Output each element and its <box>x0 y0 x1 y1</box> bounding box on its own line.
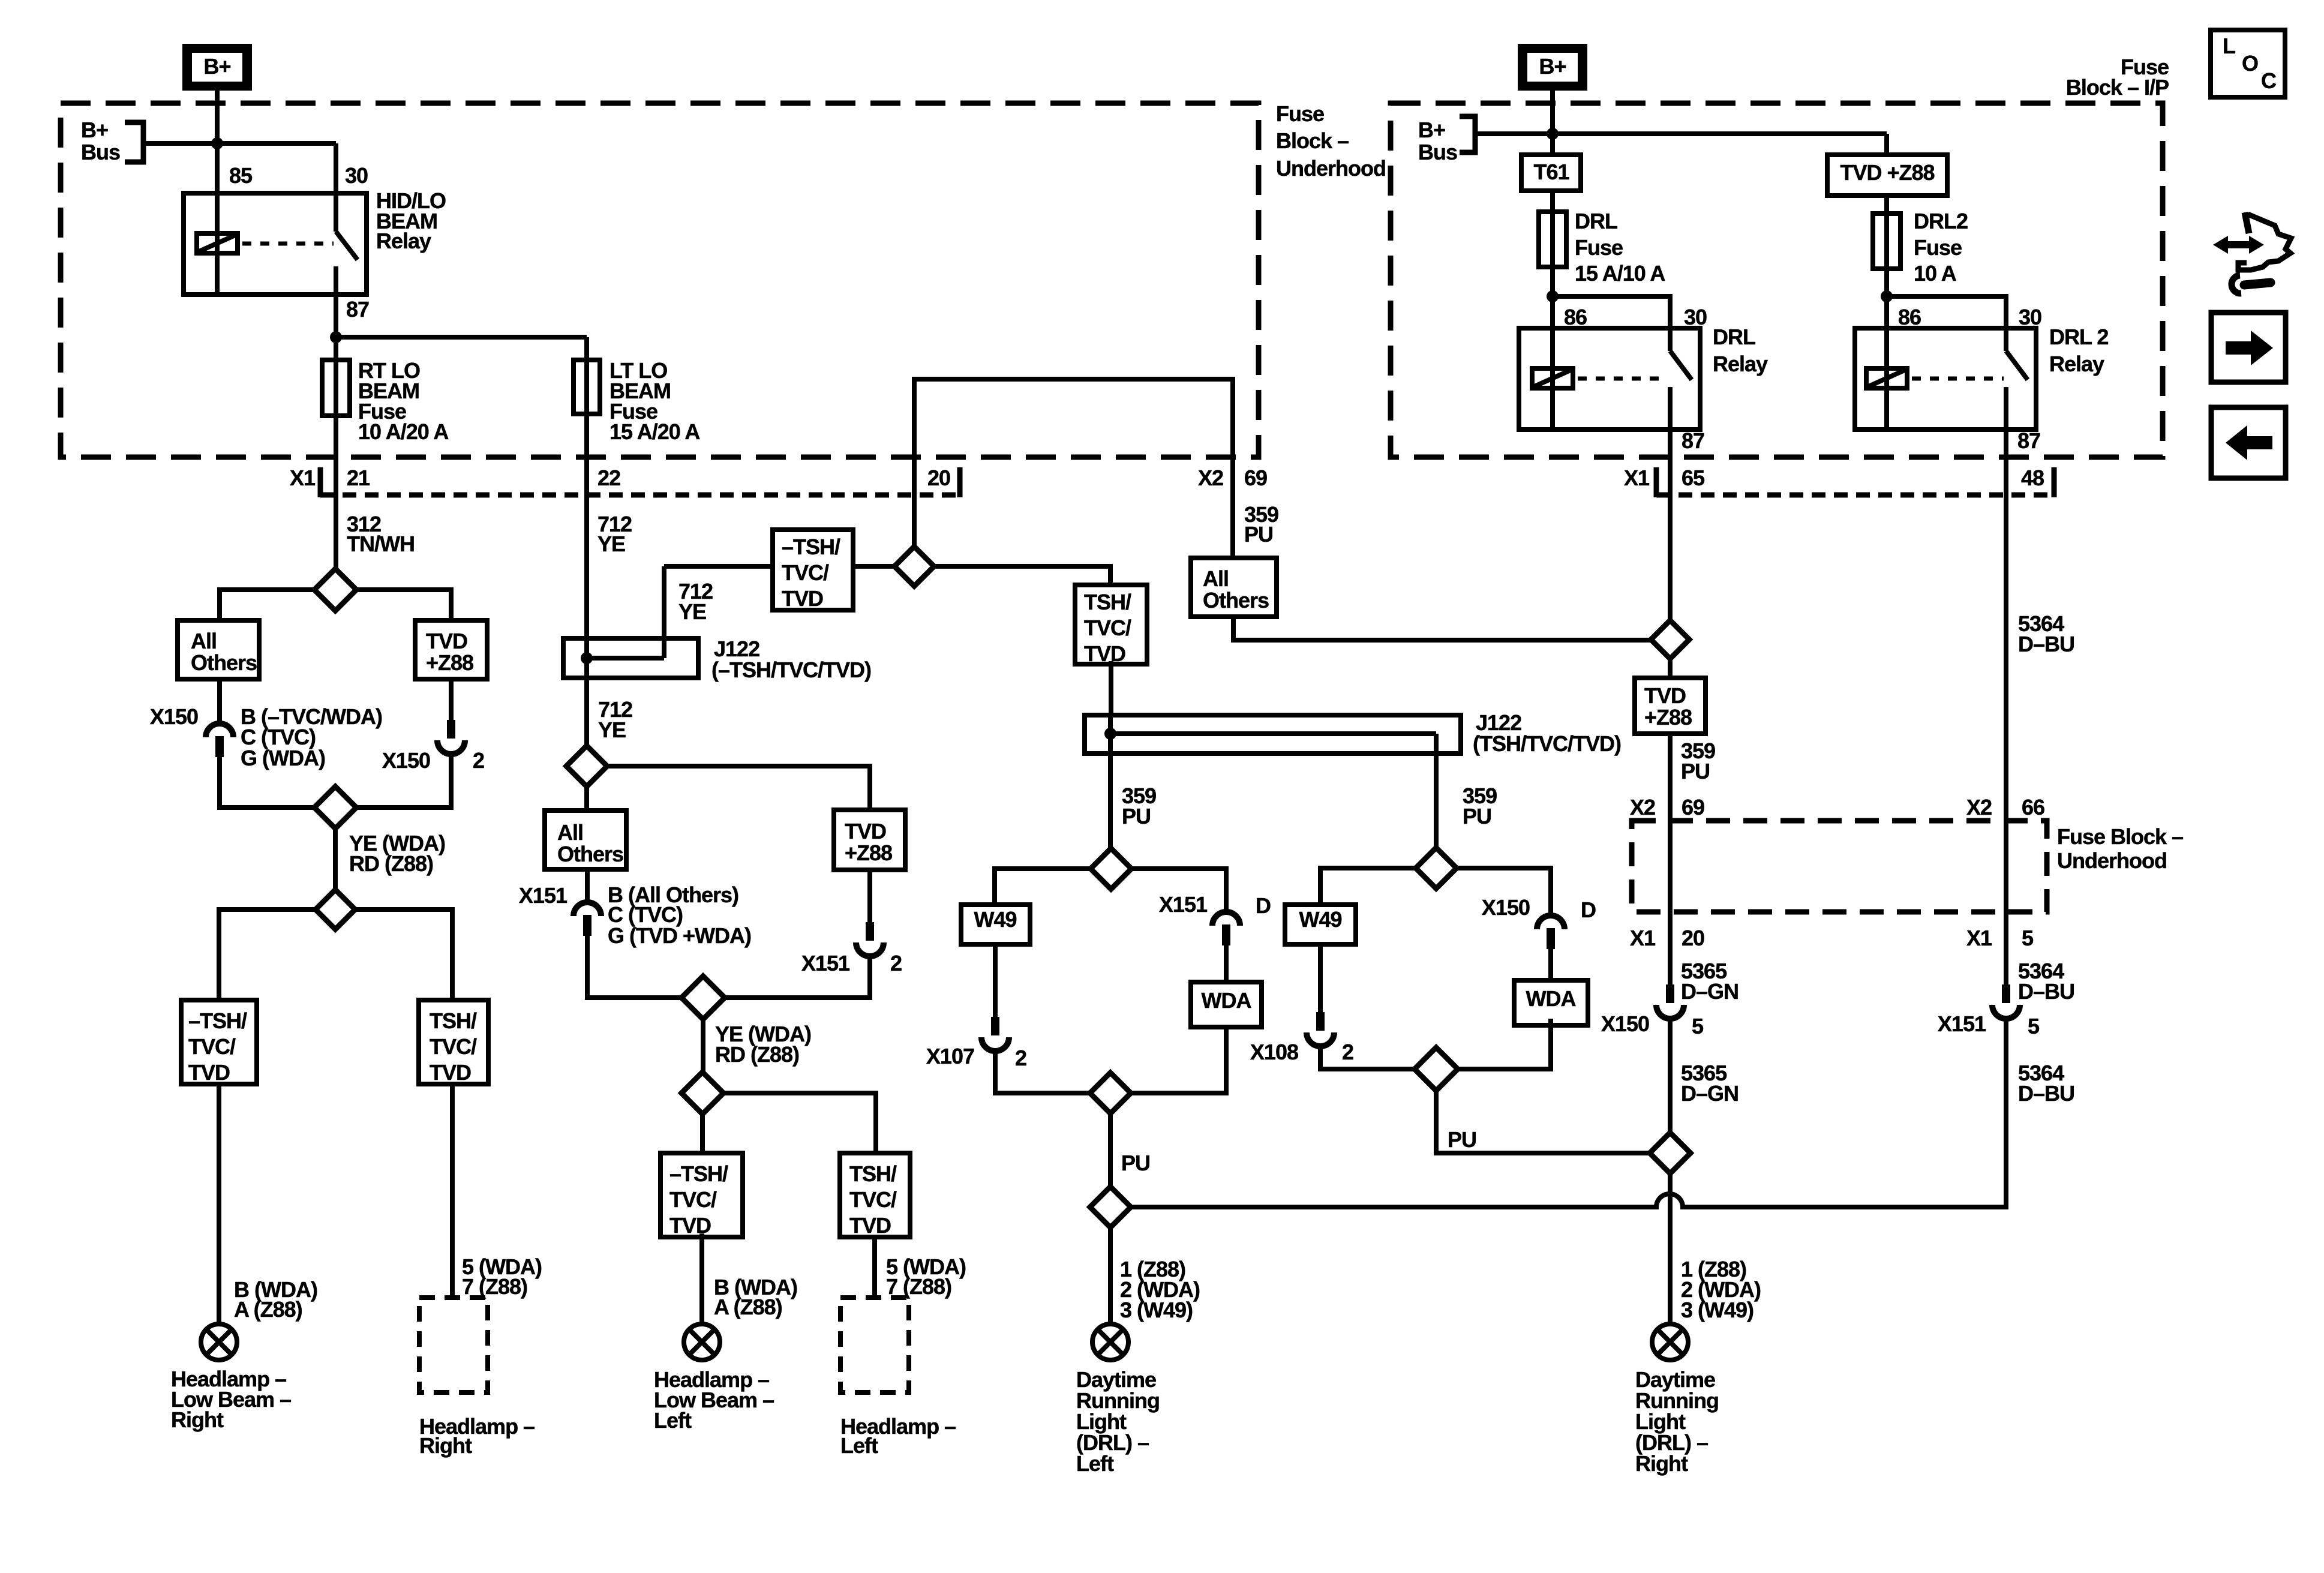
svg-text:86: 86 <box>1898 305 1921 329</box>
svg-text:DRL2: DRL2 <box>1914 209 1968 233</box>
svg-text:D–GN: D–GN <box>1681 979 1739 1004</box>
svg-text:Underhood: Underhood <box>1276 156 1386 181</box>
svg-text:X151: X151 <box>801 951 850 975</box>
svg-text:5: 5 <box>1692 1014 1704 1038</box>
svg-text:Fuse: Fuse <box>1575 235 1623 260</box>
svg-text:DRL: DRL <box>1575 209 1617 233</box>
svg-text:X151: X151 <box>1938 1011 1986 1036</box>
svg-text:All: All <box>1203 566 1229 591</box>
svg-text:TVD: TVD <box>426 629 467 653</box>
svg-text:48: 48 <box>2021 466 2044 490</box>
svg-text:3 (W49): 3 (W49) <box>1681 1298 1753 1322</box>
svg-text:X150: X150 <box>150 704 198 729</box>
svg-text:2: 2 <box>890 951 902 975</box>
svg-text:YE: YE <box>597 532 625 556</box>
svg-text:TVD: TVD <box>782 586 823 611</box>
svg-text:22: 22 <box>597 466 620 490</box>
svg-text:D–GN: D–GN <box>1681 1081 1739 1106</box>
svg-text:X1: X1 <box>1966 926 1992 950</box>
svg-text:TVD: TVD <box>1644 683 1686 708</box>
svg-text:20: 20 <box>927 466 950 490</box>
svg-text:66: 66 <box>2022 795 2044 819</box>
svg-text:W49: W49 <box>974 907 1016 932</box>
svg-text:TVD: TVD <box>430 1060 471 1085</box>
svg-text:Right: Right <box>171 1407 224 1432</box>
svg-text:TVD: TVD <box>849 1213 891 1238</box>
svg-text:Left: Left <box>654 1408 692 1433</box>
svg-text:69: 69 <box>1682 795 1704 819</box>
svg-text:+Z88: +Z88 <box>845 840 892 865</box>
svg-text:T61: T61 <box>1533 160 1569 184</box>
svg-text:7 (Z88): 7 (Z88) <box>462 1274 527 1299</box>
svg-text:PU: PU <box>1463 804 1491 828</box>
svg-text:X2: X2 <box>1630 795 1655 819</box>
svg-text:Bus: Bus <box>1418 140 1457 164</box>
svg-text:A (Z88): A (Z88) <box>234 1297 302 1322</box>
svg-text:RD (Z88): RD (Z88) <box>715 1042 799 1067</box>
svg-text:2: 2 <box>473 748 484 773</box>
svg-text:W49: W49 <box>1299 907 1341 932</box>
svg-text:D: D <box>1581 897 1596 922</box>
svg-text:Right: Right <box>419 1433 472 1458</box>
svg-text:TVC/: TVC/ <box>669 1187 717 1212</box>
svg-text:X1: X1 <box>1624 466 1650 490</box>
svg-text:PU: PU <box>1121 1151 1150 1175</box>
svg-text:D–BU: D–BU <box>2018 1081 2074 1106</box>
svg-text:TSH/: TSH/ <box>1084 590 1131 614</box>
svg-text:69: 69 <box>1244 466 1267 490</box>
svg-text:X1: X1 <box>290 466 316 490</box>
svg-text:(TSH/TVC/TVD): (TSH/TVC/TVD) <box>1473 731 1621 756</box>
svg-text:PU: PU <box>1122 804 1151 828</box>
svg-text:Relay: Relay <box>1713 352 1768 376</box>
svg-text:Fuse Block –: Fuse Block – <box>2057 824 2183 849</box>
svg-text:D–BU: D–BU <box>2018 632 2074 656</box>
svg-text:TVD: TVD <box>669 1213 711 1238</box>
svg-text:5: 5 <box>2022 926 2034 950</box>
svg-text:A (Z88): A (Z88) <box>714 1295 782 1319</box>
svg-text:Left: Left <box>1076 1451 1114 1476</box>
svg-text:–TSH/: –TSH/ <box>782 535 840 559</box>
svg-text:65: 65 <box>1682 466 1705 490</box>
svg-text:TVD +Z88: TVD +Z88 <box>1840 160 1934 185</box>
svg-text:WDA: WDA <box>1526 986 1577 1011</box>
svg-text:TSH/: TSH/ <box>849 1161 897 1186</box>
svg-text:PU: PU <box>1681 759 1710 784</box>
svg-text:Underhood: Underhood <box>2057 848 2167 873</box>
svg-text:Others: Others <box>191 650 257 675</box>
svg-text:X150: X150 <box>1601 1011 1649 1036</box>
svg-text:Fuse: Fuse <box>1914 235 1962 260</box>
svg-text:(–TSH/TVC/TVD): (–TSH/TVC/TVD) <box>711 658 871 682</box>
svg-text:Others: Others <box>1203 588 1269 613</box>
svg-text:TVD: TVD <box>188 1060 230 1085</box>
svg-text:+Z88: +Z88 <box>1644 705 1692 730</box>
svg-text:5: 5 <box>2028 1014 2040 1038</box>
svg-text:Right: Right <box>1635 1451 1688 1476</box>
svg-text:86: 86 <box>1564 305 1587 329</box>
svg-text:X108: X108 <box>1250 1040 1298 1064</box>
svg-text:Block –: Block – <box>1276 128 1349 153</box>
svg-text:2: 2 <box>1342 1040 1353 1064</box>
svg-text:7 (Z88): 7 (Z88) <box>886 1274 951 1299</box>
svg-text:15 A/20 A: 15 A/20 A <box>609 419 700 444</box>
svg-text:D: D <box>1256 893 1271 918</box>
svg-text:YE: YE <box>598 718 626 742</box>
svg-text:20: 20 <box>1682 926 1704 950</box>
svg-text:3 (W49): 3 (W49) <box>1120 1298 1193 1322</box>
svg-text:X150: X150 <box>382 748 430 773</box>
svg-text:30: 30 <box>2019 305 2041 329</box>
svg-text:Bus: Bus <box>81 140 120 164</box>
svg-text:DRL 2: DRL 2 <box>2049 325 2108 349</box>
svg-text:DRL: DRL <box>1713 325 1755 349</box>
svg-text:X1: X1 <box>1630 926 1656 950</box>
svg-text:All: All <box>557 820 583 845</box>
svg-text:87: 87 <box>2017 428 2040 453</box>
svg-text:G (TVD +WDA): G (TVD +WDA) <box>608 923 751 948</box>
svg-text:X2: X2 <box>1966 795 1992 819</box>
svg-text:30: 30 <box>1684 305 1707 329</box>
svg-text:C: C <box>2261 68 2277 93</box>
svg-text:RD (Z88): RD (Z88) <box>349 851 433 876</box>
svg-text:30: 30 <box>345 163 368 188</box>
svg-text:TVC/: TVC/ <box>1084 616 1131 640</box>
svg-text:O: O <box>2242 51 2258 76</box>
svg-text:Others: Others <box>557 842 623 866</box>
svg-text:B+: B+ <box>203 54 230 79</box>
svg-text:X151: X151 <box>1159 892 1208 917</box>
svg-text:PU: PU <box>1244 522 1273 547</box>
svg-text:–TSH/: –TSH/ <box>669 1161 728 1186</box>
svg-text:10 A: 10 A <box>1914 261 1957 286</box>
svg-text:X107: X107 <box>926 1044 974 1068</box>
svg-text:87: 87 <box>1682 428 1704 453</box>
svg-text:TVC/: TVC/ <box>782 560 829 585</box>
svg-text:B+: B+ <box>81 118 108 142</box>
svg-text:10 A/20 A: 10 A/20 A <box>358 419 449 444</box>
svg-text:TSH/: TSH/ <box>430 1008 477 1033</box>
svg-text:Fuse: Fuse <box>1276 101 1324 126</box>
svg-text:–TSH/: –TSH/ <box>188 1008 247 1033</box>
svg-text:21: 21 <box>347 466 370 490</box>
svg-text:TVC/: TVC/ <box>430 1034 477 1059</box>
svg-text:TVD: TVD <box>845 819 886 843</box>
svg-text:All: All <box>191 629 217 653</box>
svg-text:2: 2 <box>1015 1046 1026 1070</box>
svg-text:Left: Left <box>840 1433 878 1458</box>
svg-text:X2: X2 <box>1198 466 1223 490</box>
svg-text:+Z88: +Z88 <box>426 650 473 675</box>
svg-text:B+: B+ <box>1539 54 1566 79</box>
svg-text:YE: YE <box>678 599 706 624</box>
svg-text:Relay: Relay <box>376 229 431 253</box>
svg-text:Relay: Relay <box>2049 352 2104 376</box>
svg-text:Block – I/P: Block – I/P <box>2066 75 2169 100</box>
svg-text:TVC/: TVC/ <box>849 1187 897 1212</box>
svg-text:85: 85 <box>229 163 253 188</box>
svg-text:87: 87 <box>346 297 369 322</box>
svg-text:TN/WH: TN/WH <box>347 532 415 556</box>
svg-text:G (WDA): G (WDA) <box>241 746 325 770</box>
svg-text:PU: PU <box>1448 1127 1476 1152</box>
svg-text:B+: B+ <box>1418 118 1445 142</box>
svg-text:X150: X150 <box>1482 895 1530 920</box>
svg-text:D–BU: D–BU <box>2018 979 2074 1004</box>
svg-text:L: L <box>2223 34 2235 58</box>
svg-text:X151: X151 <box>519 883 568 908</box>
svg-text:TVD: TVD <box>1084 641 1125 666</box>
svg-text:15 A/10 A: 15 A/10 A <box>1575 261 1665 286</box>
svg-text:TVC/: TVC/ <box>188 1034 236 1059</box>
svg-text:WDA: WDA <box>1202 988 1252 1013</box>
